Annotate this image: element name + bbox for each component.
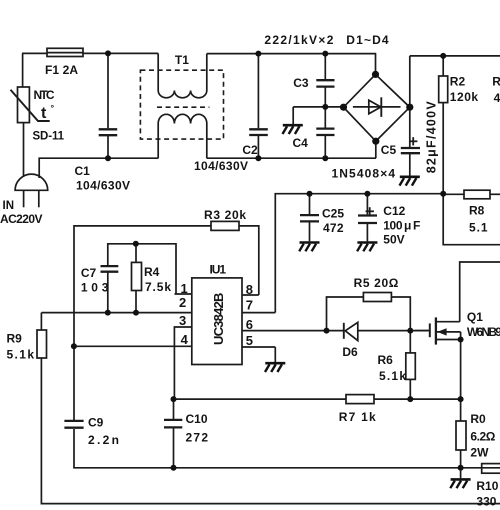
- svg-text:W6NB90: W6NB90: [467, 325, 500, 339]
- wire pin7: [242, 312, 275, 314]
- transformer T1 core dashed box: [140, 70, 223, 139]
- svg-text:6.2Ω: 6.2Ω: [470, 430, 495, 444]
- IC U1 box: [192, 278, 242, 365]
- wire R0 ground stub: [460, 468, 462, 478]
- resistor R3: [211, 221, 239, 230]
- svg-text:7: 7: [246, 298, 253, 313]
- bridge rectifier inner diode: [353, 106, 401, 108]
- svg-text:6: 6: [246, 317, 253, 332]
- ground C5: [400, 177, 420, 186]
- svg-text:R1: R1: [492, 75, 500, 89]
- wire C12 leads: [366, 194, 368, 215]
- svg-text:5.1k: 5.1k: [7, 348, 35, 362]
- wire top AC line mid segment T1 to bridge top: [207, 53, 376, 55]
- svg-text:C12: C12: [383, 204, 405, 218]
- resistor R0: [456, 421, 466, 450]
- wire R0 bottom lead: [460, 450, 462, 468]
- resistor R9: [37, 330, 47, 358]
- resistor R4: [132, 262, 142, 290]
- svg-text:C7: C7: [81, 266, 97, 280]
- svg-text:C1: C1: [75, 164, 91, 178]
- svg-text:D1~D4: D1~D4: [346, 33, 389, 47]
- fuse F1: [47, 48, 83, 56]
- wire bridge bottom stub: [375, 141, 377, 158]
- capacitor C5 plus sign: [409, 137, 417, 145]
- wire C2 leads: [257, 54, 259, 129]
- capacitor C2: [249, 129, 268, 135]
- svg-text:82μF/400V: 82μF/400V: [425, 101, 439, 174]
- resistor R8: [464, 190, 490, 199]
- diode D6: [343, 323, 345, 339]
- wire Q1 source down: [460, 332, 462, 399]
- wire bridge right vertex to DC rail and C5: [409, 56, 411, 147]
- svg-text:5: 5: [246, 333, 253, 348]
- svg-text:SD-11: SD-11: [33, 131, 65, 143]
- wire pin8: [242, 294, 259, 296]
- wire VCC rail: [275, 194, 443, 313]
- resistor R6: [406, 353, 416, 380]
- wire DC+ rail top right: [410, 55, 500, 57]
- wire R0 top lead: [460, 399, 462, 421]
- wire plug prong right: [38, 190, 40, 207]
- svg-text:222/1kV×2: 222/1kV×2: [264, 33, 333, 47]
- wire feedback branch down right: [443, 194, 500, 245]
- svg-text:100 μ F: 100 μ F: [383, 219, 420, 233]
- wire R3 to pin8: [239, 226, 259, 295]
- svg-text:R10: R10: [476, 479, 498, 493]
- wire C10 leads: [173, 399, 175, 419]
- svg-text:R0: R0: [470, 412, 486, 426]
- svg-text:47: 47: [494, 91, 500, 105]
- ground R0: [450, 479, 470, 488]
- wire C1 leads: [107, 53, 109, 128]
- svg-text:C9: C9: [88, 416, 104, 430]
- svg-text:2: 2: [179, 295, 186, 310]
- wire C7 bottom lead: [107, 272, 109, 313]
- svg-text:D6: D6: [342, 345, 358, 359]
- wire C4 leads: [324, 107, 326, 128]
- svg-text:C3: C3: [293, 76, 309, 90]
- wire pin1: [175, 293, 192, 295]
- svg-text:Q1: Q1: [467, 310, 483, 324]
- svg-text:120k: 120k: [450, 90, 479, 104]
- svg-text:R2: R2: [450, 75, 466, 89]
- svg-text:°: °: [51, 103, 55, 113]
- transistor Q1 MOSFET: [415, 330, 429, 332]
- svg-text:472: 472: [323, 221, 344, 235]
- svg-text:C25: C25: [322, 207, 344, 221]
- ground C25: [299, 243, 319, 252]
- wire pin5 ground stub: [274, 347, 276, 362]
- svg-text:R8: R8: [469, 204, 485, 218]
- ground C12: [357, 243, 377, 252]
- svg-text:UC3842B: UC3842B: [211, 293, 226, 346]
- wire pin2 feedback line: [41, 312, 191, 314]
- wire R3 node: [74, 226, 211, 421]
- capacitor C10: [164, 420, 182, 428]
- svg-text:C5: C5: [381, 143, 397, 157]
- wire R4 bottom lead: [135, 291, 137, 313]
- svg-text:330: 330: [476, 495, 496, 509]
- wire C3 leads: [324, 54, 326, 80]
- wire R9 bottom lead to bottom rail: [41, 358, 500, 504]
- transformer T1 winding top: [158, 53, 207, 97]
- resistor R2: [439, 76, 448, 103]
- wire drain to transformer: [460, 262, 500, 322]
- wire ground stub C3C4: [292, 107, 294, 124]
- svg-text:T1: T1: [175, 53, 189, 67]
- bridge rectifier D1-D4 outline: [344, 74, 410, 141]
- wire R5 left branch: [327, 297, 364, 331]
- capacitor C4: [316, 129, 334, 135]
- svg-text:R3 20k: R3 20k: [204, 208, 246, 222]
- wire C5 to ground: [409, 152, 411, 175]
- svg-text:8: 8: [246, 282, 253, 297]
- wire R6 top lead: [409, 331, 411, 353]
- svg-text:R6: R6: [378, 353, 394, 367]
- wire pin5: [242, 346, 275, 348]
- wire pin4 RT/CT line: [74, 345, 192, 347]
- svg-text:t: t: [41, 105, 47, 122]
- svg-text:104/630V: 104/630V: [76, 179, 130, 193]
- svg-text:C2: C2: [242, 143, 258, 157]
- transformer T1 core dashed mid line: [157, 106, 209, 108]
- wire C9 bottom to ground rail: [74, 429, 500, 468]
- svg-text:1N5408×4: 1N5408×4: [332, 167, 396, 181]
- resistor R7: [346, 395, 374, 404]
- resistor R10: [482, 464, 500, 474]
- plug AC input: [15, 174, 48, 190]
- wire bridge top stub: [375, 54, 377, 75]
- wire pin6 gate drive line: [242, 330, 344, 332]
- wire R6 bottom lead: [409, 379, 411, 399]
- wire left AC input vertical: [22, 53, 24, 87]
- transformer T1 winding bottom: [158, 114, 207, 158]
- svg-text:5.1k: 5.1k: [379, 369, 406, 383]
- svg-text:103: 103: [81, 281, 109, 295]
- svg-text:5.1: 5.1: [469, 221, 488, 235]
- thermistor NTC body: [18, 87, 30, 123]
- capacitor C3: [316, 80, 334, 86]
- wire plug prong left: [23, 190, 25, 207]
- svg-text:50V: 50V: [383, 233, 404, 247]
- wire pin3: [174, 327, 191, 399]
- wire bottom AC line mid segment: [207, 157, 376, 159]
- svg-text:7.5k: 7.5k: [145, 280, 171, 294]
- wire bottom AC line left segment: [39, 158, 158, 178]
- capacitor C9: [64, 421, 83, 428]
- wire R2 top lead: [442, 56, 444, 76]
- capacitor C12 electrolytic: [358, 216, 377, 224]
- capacitor C5 electrolytic: [401, 148, 420, 153]
- svg-text:C4: C4: [293, 136, 309, 150]
- ground pin5: [265, 363, 285, 372]
- wire R5 right branch: [391, 297, 410, 331]
- svg-text:IU1: IU1: [210, 263, 227, 277]
- ground C3C4: [283, 125, 303, 134]
- svg-text:R5 20Ω: R5 20Ω: [354, 276, 399, 290]
- svg-text:AC220V: AC220V: [0, 212, 43, 226]
- svg-text:C10: C10: [186, 412, 208, 426]
- capacitor C1: [99, 129, 118, 135]
- ground symbols: [265, 125, 471, 488]
- capacitor C12 plus sign: [366, 207, 374, 215]
- wire top AC line left segment: [22, 52, 47, 54]
- svg-text:4: 4: [181, 332, 189, 347]
- wire R9 top lead: [40, 313, 42, 330]
- svg-text:IN: IN: [3, 200, 15, 212]
- capacitor C7: [101, 266, 119, 272]
- svg-text:104/630V: 104/630V: [194, 159, 248, 173]
- wire R2 bottom lead: [442, 103, 444, 194]
- wire bridge mid to C3C4 node: [293, 106, 343, 108]
- wire NTC to plug: [23, 123, 25, 177]
- svg-text:1: 1: [181, 281, 188, 296]
- wire Vref node C7 R4: [108, 244, 176, 294]
- svg-text:3: 3: [179, 313, 186, 328]
- svg-text:R4: R4: [144, 265, 160, 279]
- resistor R5: [363, 293, 391, 302]
- svg-text:R7 1k: R7 1k: [339, 410, 376, 424]
- wire current sense line: [174, 398, 347, 400]
- svg-text:NTC: NTC: [34, 88, 55, 102]
- svg-text:F1 2A: F1 2A: [45, 63, 78, 77]
- svg-text:2.2n: 2.2n: [88, 433, 119, 447]
- wire R4 top lead: [135, 244, 137, 263]
- svg-text:272: 272: [186, 431, 209, 445]
- wire C25 leads: [309, 194, 311, 214]
- capacitor C25: [300, 215, 319, 221]
- svg-text:2W: 2W: [470, 446, 489, 460]
- svg-text:R9: R9: [7, 331, 23, 345]
